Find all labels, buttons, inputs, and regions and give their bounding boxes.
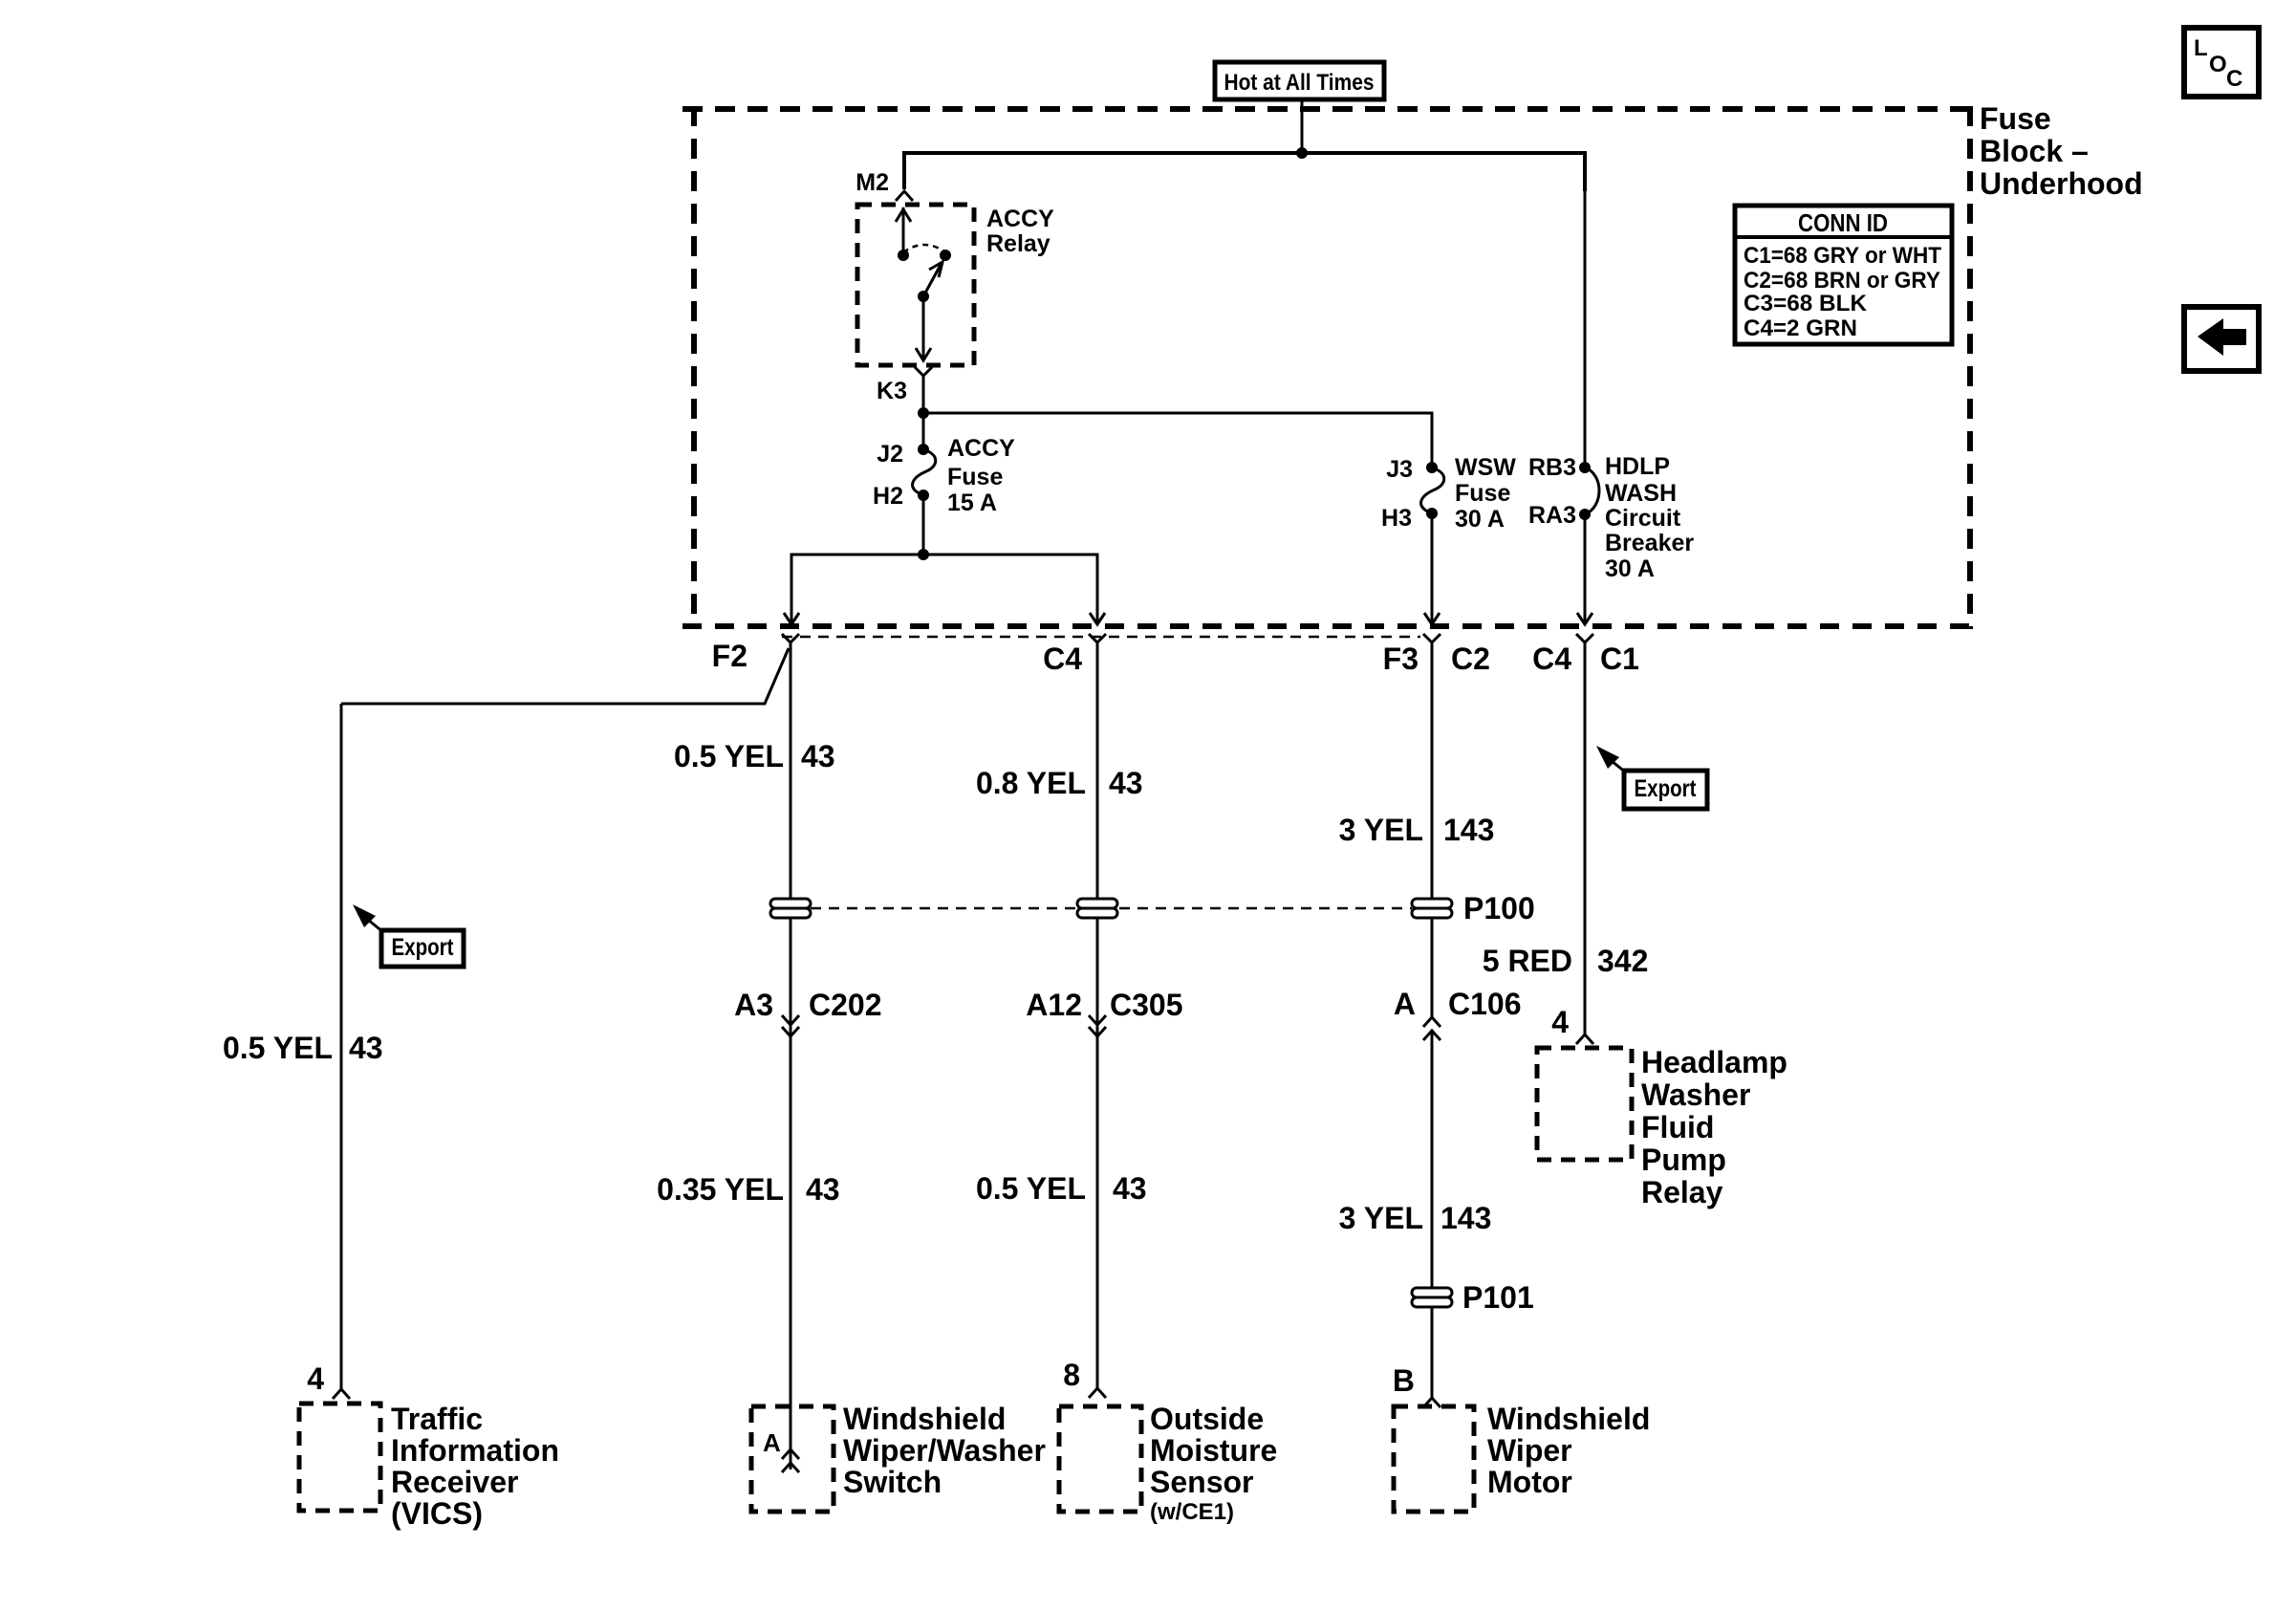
svg-text:CONN ID: CONN ID: [1798, 208, 1888, 237]
relay arm pivot dot: [918, 291, 929, 302]
svg-text:(w/CE1): (w/CE1): [1150, 1499, 1234, 1525]
svg-text:C1: C1: [1600, 642, 1639, 676]
svg-text:C305: C305: [1110, 988, 1183, 1022]
connector double chevron inside switch: [782, 1449, 799, 1472]
svg-text:Moisture: Moisture: [1150, 1433, 1277, 1468]
connector C4 (left): [1043, 634, 1106, 676]
svg-text:J3: J3: [1386, 456, 1413, 483]
svg-text:Fuse: Fuse: [1455, 480, 1510, 507]
svg-text:A: A: [763, 1428, 781, 1457]
svg-text:0.35 YEL: 0.35 YEL: [657, 1172, 784, 1207]
svg-text:Sensor: Sensor: [1150, 1465, 1253, 1499]
svg-text:Relay: Relay: [1641, 1175, 1723, 1209]
svg-text:Motor: Motor: [1487, 1465, 1572, 1499]
svg-text:P100: P100: [1463, 891, 1535, 925]
svg-text:Export: Export: [392, 934, 455, 961]
connector chevron into sensor: [1089, 1388, 1106, 1398]
svg-text:0.8 YEL: 0.8 YEL: [976, 766, 1086, 800]
relay pin line with up arrow: [896, 207, 911, 255]
wire: H2 down to split junction: [922, 495, 925, 555]
svg-text:Outside: Outside: [1150, 1402, 1264, 1436]
svg-text:J2: J2: [877, 441, 903, 468]
connector C4 / C1: [1532, 634, 1639, 676]
svg-text:30 A: 30 A: [1605, 555, 1655, 582]
svg-text:Washer: Washer: [1641, 1078, 1750, 1112]
svg-text:WASH: WASH: [1605, 480, 1677, 507]
wire: top bus: [904, 153, 1585, 191]
label 0.5 YEL 43 (sensor wire): [976, 1171, 1147, 1206]
svg-text:Wiper: Wiper: [1487, 1433, 1572, 1468]
svg-text:L: L: [2194, 35, 2208, 61]
relay output pin with down arrow: [916, 296, 931, 360]
svg-text:C1=68 GRY or WHT: C1=68 GRY or WHT: [1744, 243, 1941, 269]
svg-text:43: 43: [349, 1031, 383, 1065]
pin M2: [856, 169, 913, 201]
connector F2: [712, 634, 799, 673]
svg-text:4: 4: [1551, 1005, 1569, 1039]
label 0.5 YEL 43 (left branch): [223, 1031, 383, 1065]
export box (right): [1624, 771, 1707, 809]
label 0.35 YEL 43: [657, 1172, 839, 1207]
connector chevron into motor: [1423, 1398, 1440, 1407]
svg-text:342: 342: [1597, 944, 1648, 978]
label Headlamp Washer Fluid Pump Relay: [1641, 1045, 1787, 1209]
relay N.O. contact dot B: [940, 250, 951, 261]
svg-text:Breaker: Breaker: [1605, 530, 1694, 556]
wire: H3 down to F3 entry with arrow: [1424, 513, 1440, 624]
svg-text:C106: C106: [1448, 987, 1522, 1021]
svg-text:143: 143: [1440, 1201, 1491, 1235]
svg-text:Block –: Block –: [1980, 134, 2089, 168]
label 0.5 YEL 43 (wire F2): [674, 739, 835, 773]
fuse ACCY Fuse 15 A: [873, 435, 1015, 516]
svg-text:8: 8: [1063, 1358, 1080, 1392]
svg-text:0.5 YEL: 0.5 YEL: [223, 1031, 333, 1065]
label Outside Moisture Sensor (w/CE1): [1150, 1402, 1277, 1525]
back arrow icon: [2184, 307, 2259, 371]
label 3 YEL 143 (upper): [1339, 813, 1495, 847]
label Traffic Information Receiver (VICS): [391, 1402, 559, 1531]
svg-text:RA3: RA3: [1528, 502, 1576, 529]
svg-text:C: C: [2226, 66, 2242, 92]
wire: split to F2 entry with arrow: [784, 555, 923, 624]
svg-text:C4: C4: [1532, 642, 1571, 676]
svg-text:P101: P101: [1462, 1280, 1534, 1315]
svg-text:WSW: WSW: [1455, 454, 1516, 481]
wire: split to C4 entry with arrow: [923, 555, 1105, 624]
component box Outside Moisture Sensor: [1059, 1406, 1141, 1512]
svg-text:C2=68 BRN or GRY: C2=68 BRN or GRY: [1744, 268, 1940, 294]
label Windshield Wiper Motor: [1487, 1402, 1650, 1499]
svg-text:C3=68 BLK: C3=68 BLK: [1744, 291, 1868, 316]
connector chevron into Traffic receiver: [333, 1389, 350, 1399]
connector interface thin dashed line: [782, 636, 1420, 639]
svg-text:C4=2 GRN: C4=2 GRN: [1744, 316, 1857, 341]
svg-text:A3: A3: [734, 988, 773, 1022]
svg-text:Windshield: Windshield: [843, 1402, 1006, 1436]
splice P100 on sensor wire: [1077, 899, 1117, 918]
wire: RA3 down to C1 entry with arrow: [1577, 514, 1592, 624]
node: K3 junction dot: [918, 407, 929, 419]
svg-text:43: 43: [806, 1172, 840, 1207]
svg-text:0.5 YEL: 0.5 YEL: [976, 1171, 1086, 1206]
svg-text:Fuse: Fuse: [1980, 101, 2051, 136]
component box Headlamp Washer Fluid Pump Relay: [1537, 1048, 1632, 1160]
export box (left): [381, 930, 464, 967]
export arrow (left): [353, 904, 383, 932]
fuse block underhood dashed box: [682, 106, 1970, 629]
splice P100 on motor wire: [1412, 899, 1452, 918]
svg-text:Switch: Switch: [843, 1465, 942, 1499]
fuse WSW Fuse 30 A: [1381, 454, 1516, 533]
svg-text:Pump: Pump: [1641, 1143, 1726, 1177]
pin K3: [877, 367, 932, 404]
export arrow (right): [1596, 746, 1626, 773]
svg-text:RB3: RB3: [1528, 454, 1576, 481]
label ACCY Relay: [986, 206, 1054, 257]
connector F3 / C2: [1383, 634, 1490, 676]
svg-text:43: 43: [1113, 1171, 1147, 1206]
svg-text:ACCY: ACCY: [947, 435, 1015, 462]
svg-text:5 RED: 5 RED: [1483, 944, 1572, 978]
svg-text:Relay: Relay: [986, 230, 1051, 257]
svg-text:C4: C4: [1043, 642, 1082, 676]
svg-text:Wiper/Washer: Wiper/Washer: [843, 1433, 1046, 1468]
connector chevron into relay: [1576, 1034, 1593, 1044]
svg-text:C202: C202: [809, 988, 882, 1022]
splice P101: [1412, 1288, 1452, 1307]
svg-text:K3: K3: [877, 378, 907, 404]
relay dashed actuation arc: [903, 245, 945, 252]
CONN ID table: [1735, 206, 1952, 344]
wire: F2 to Wiper/Washer Switch: [790, 648, 792, 1469]
label 5 RED 342: [1483, 944, 1649, 978]
circuit breaker HDLP WASH 30 A: [1528, 153, 1694, 582]
wire: C4 to Outside Moisture Sensor: [1096, 648, 1099, 1388]
svg-text:ACCY: ACCY: [986, 206, 1054, 232]
wire: hot feed drop: [1301, 99, 1304, 153]
svg-text:Traffic: Traffic: [391, 1402, 483, 1436]
wire: F3 to Windshield Wiper Motor: [1431, 648, 1434, 1398]
label 3 YEL 143 (lower): [1339, 1201, 1492, 1235]
svg-text:3 YEL: 3 YEL: [1339, 1201, 1423, 1235]
svg-text:Underhood: Underhood: [1980, 166, 2143, 201]
svg-text:3 YEL: 3 YEL: [1339, 813, 1423, 847]
svg-text:Headlamp: Headlamp: [1641, 1045, 1787, 1079]
svg-text:M2: M2: [856, 169, 889, 196]
relay ACCY Relay dashed box: [857, 205, 974, 365]
node: split junction dot: [918, 549, 929, 560]
splice interconnect dashed line: [811, 907, 1412, 910]
connector A3 / C202: [734, 988, 881, 1036]
label Windshield Wiper/Washer Switch: [843, 1402, 1046, 1499]
svg-text:Export: Export: [1635, 775, 1698, 802]
svg-text:Fuse: Fuse: [947, 464, 1003, 490]
wire: F2 branch diagonal to VICS run: [341, 648, 789, 704]
relay contact dot A: [898, 250, 909, 261]
svg-text:30 A: 30 A: [1455, 506, 1505, 533]
svg-text:F3: F3: [1383, 642, 1419, 676]
svg-text:A12: A12: [1026, 988, 1082, 1022]
wire: C1 to Headlamp Washer Relay: [1584, 648, 1587, 1034]
power label Hot at All Times: [1215, 62, 1384, 99]
svg-text:A: A: [1394, 987, 1416, 1021]
wire: K3 down to junction: [922, 381, 925, 449]
svg-text:C2: C2: [1451, 642, 1490, 676]
relay switch arm: [923, 262, 942, 296]
svg-text:15 A: 15 A: [947, 490, 997, 516]
svg-text:Circuit: Circuit: [1605, 505, 1681, 532]
svg-text:0.5 YEL: 0.5 YEL: [674, 739, 784, 773]
svg-text:HDLP: HDLP: [1605, 453, 1670, 480]
svg-text:4: 4: [307, 1361, 324, 1396]
svg-text:O: O: [2209, 52, 2227, 77]
svg-text:Fluid: Fluid: [1641, 1110, 1714, 1144]
LOC icon: [2184, 28, 2259, 97]
component box Windshield Wiper Motor: [1394, 1406, 1474, 1512]
svg-text:F2: F2: [712, 639, 747, 673]
component box Windshield Wiper/Washer Switch: [751, 1406, 834, 1512]
svg-text:Information: Information: [391, 1433, 559, 1468]
svg-text:43: 43: [801, 739, 835, 773]
svg-text:B: B: [1393, 1363, 1415, 1398]
svg-text:Receiver: Receiver: [391, 1465, 518, 1499]
label Fuse Block - Underhood: [1980, 101, 2143, 201]
svg-text:Windshield: Windshield: [1487, 1402, 1650, 1436]
connector A / C106: [1394, 987, 1522, 1040]
svg-text:H2: H2: [873, 483, 903, 510]
svg-text:143: 143: [1443, 813, 1494, 847]
node: bus junction dot: [1296, 147, 1308, 159]
wire: K3 junction to WSW fuse: [923, 413, 1432, 468]
svg-text:43: 43: [1109, 766, 1143, 800]
svg-text:H3: H3: [1381, 505, 1412, 532]
connector A12 / C305: [1026, 988, 1182, 1036]
label 0.8 YEL 43: [976, 766, 1143, 800]
component box Traffic Information Receiver: [299, 1404, 380, 1511]
svg-text:(VICS): (VICS): [391, 1496, 483, 1531]
svg-text:Hot at All Times: Hot at All Times: [1224, 70, 1375, 96]
splice P100 on wire F2: [770, 899, 811, 918]
wire: left vertical to Traffic Information Receiver: [340, 704, 343, 1391]
